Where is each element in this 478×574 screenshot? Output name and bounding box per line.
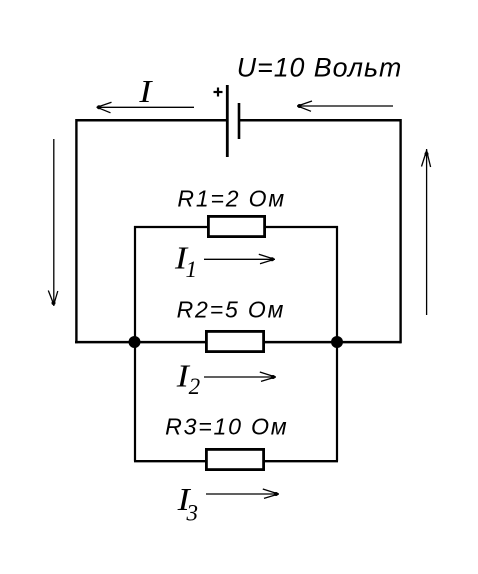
label R2=5 Ом: [177, 296, 286, 322]
svg-text:1: 1: [186, 257, 198, 282]
wire right vertical: [399, 119, 401, 343]
wire R1 loop left vertical: [134, 226, 136, 342]
current arrow (top right, pointing left): [297, 101, 393, 111]
resistor R3: [206, 449, 263, 469]
wire R3 loop bottom left: [134, 460, 205, 462]
node junction A (left): [129, 336, 141, 348]
current arrow I1 (pointing right): [204, 254, 275, 264]
wire R1 loop top left: [134, 226, 207, 228]
current arrow I3 (pointing right): [206, 489, 279, 498]
resistor R1: [208, 216, 264, 236]
wire R3 loop right vertical: [336, 342, 338, 461]
battery negative plate: [238, 103, 241, 139]
label I1: [174, 242, 197, 283]
wire top right (right side to battery -): [240, 119, 401, 122]
label I2: [176, 360, 200, 400]
svg-text:I: I: [138, 75, 153, 109]
wire R1 loop right vertical: [336, 226, 338, 342]
label R1=2 Ом: [177, 185, 286, 211]
current arrow left branch (down): [48, 139, 58, 306]
current arrow I2 (pointing right): [204, 372, 276, 381]
wire R1 loop top right: [266, 226, 338, 228]
label I3: [177, 483, 198, 525]
resistor R2: [206, 331, 263, 351]
current arrow right branch (up): [422, 149, 431, 315]
wire R3 loop left vertical: [134, 342, 136, 461]
svg-text:U=10 Вольт: U=10 Вольт: [237, 52, 402, 82]
label I: [138, 75, 153, 109]
wire R3 loop bottom right: [265, 460, 338, 462]
wire left vertical: [75, 119, 77, 343]
label U=10 Вольт: [237, 52, 402, 82]
svg-text:R1=2 Ом: R1=2 Ом: [177, 185, 286, 211]
svg-text:R3=10 Ом: R3=10 Ом: [165, 413, 288, 439]
battery plus sign: [214, 88, 223, 97]
wire top left (battery + to left): [76, 119, 227, 122]
battery positive plate: [226, 85, 229, 157]
node junction B (right): [331, 336, 343, 348]
label R3=10 Ом: [165, 413, 288, 439]
wire middle node bus: [75, 341, 401, 344]
current arrow I (top left, pointing left): [97, 102, 195, 113]
svg-text:3: 3: [186, 500, 199, 525]
svg-text:2: 2: [189, 374, 201, 399]
svg-text:R2=5 Ом: R2=5 Ом: [177, 296, 286, 322]
